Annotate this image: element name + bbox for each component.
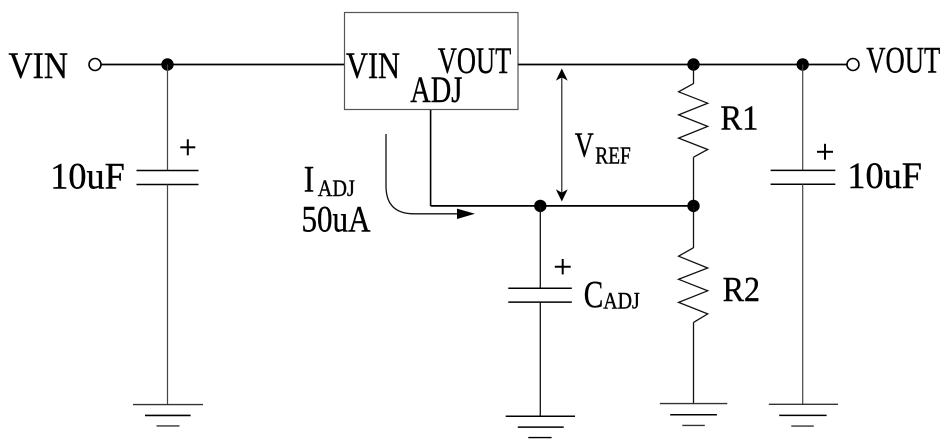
- capacitor CADJ plates: [508, 288, 572, 302]
- resistor R1 top lead: [693, 65, 695, 85]
- arrow IADJ (adjust current, curved): [386, 134, 475, 219]
- svg-text:R1: R1: [720, 98, 758, 137]
- label R1: [720, 98, 758, 137]
- terminal VIN (open circle): [89, 59, 101, 71]
- capacitor C2 polarity +: [817, 144, 833, 160]
- ground: C2: [769, 404, 838, 426]
- resistor R2 zigzag: [679, 248, 708, 323]
- terminal VOUT (open circle): [847, 59, 859, 71]
- node: ADJ net / R2 junction: [687, 200, 699, 212]
- svg-text:C: C: [584, 274, 604, 316]
- svg-text:50uA: 50uA: [302, 199, 371, 240]
- wire: ADJ net horizontal: [431, 205, 694, 207]
- svg-text:ADJ: ADJ: [410, 70, 462, 111]
- wire: ADJ pin down from regulator: [430, 110, 432, 206]
- capacitor C2 plates: [771, 170, 836, 184]
- svg-text:VIN: VIN: [346, 46, 400, 87]
- pin label VOUT (U1 output pin): [438, 41, 512, 82]
- regulator U1 body: [345, 13, 519, 110]
- capacitor C2 bottom lead: [802, 184, 804, 404]
- wire: regulator output to VOUT terminal: [518, 64, 847, 66]
- ground: C1: [133, 405, 203, 426]
- label CADJ: [584, 274, 640, 316]
- label R2: [723, 270, 761, 309]
- label 10uF (C2 value): [847, 156, 922, 197]
- capacitor C1 top lead: [167, 65, 169, 171]
- svg-text:10uF: 10uF: [50, 157, 125, 198]
- capacitor C1 polarity +: [180, 139, 195, 155]
- svg-text:VOUT: VOUT: [866, 41, 940, 82]
- svg-text:10uF: 10uF: [847, 156, 922, 197]
- svg-text:ADJ: ADJ: [603, 289, 640, 314]
- svg-text:ADJ: ADJ: [318, 176, 355, 201]
- svg-text:V: V: [575, 126, 594, 164]
- svg-text:I: I: [304, 159, 315, 200]
- arrow VREF (reference voltage indicator, double headed): [556, 69, 568, 202]
- ground: CADJ: [506, 416, 575, 437]
- pin label ADJ (U1 adjust pin): [410, 70, 462, 111]
- resistor R1 bottom lead: [693, 157, 695, 206]
- node: ADJ net / CADJ junction: [534, 200, 546, 212]
- node: VIN rail / C1 junction: [161, 58, 173, 70]
- label VIN (input net): [9, 46, 69, 87]
- resistor R1 zigzag: [679, 84, 708, 158]
- capacitor CADJ bottom lead: [539, 302, 541, 416]
- label VOUT (output net): [866, 41, 940, 82]
- svg-text:REF: REF: [595, 144, 631, 170]
- capacitor C2 top lead: [802, 65, 804, 171]
- svg-text:VIN: VIN: [9, 46, 69, 87]
- resistor R2 bottom lead: [693, 322, 695, 403]
- node: VOUT rail / R1 junction: [687, 58, 699, 70]
- label VREF: [575, 126, 631, 169]
- wire: VIN terminal to regulator input: [102, 64, 346, 66]
- pin label VIN (U1 input pin): [346, 46, 400, 87]
- label 50uA (adjust current value): [302, 199, 371, 240]
- capacitor C1 plates: [137, 171, 199, 185]
- label IADJ: [304, 159, 355, 201]
- capacitor CADJ top lead: [539, 206, 541, 288]
- capacitor C1 bottom lead: [167, 185, 169, 405]
- label 10uF (C1 value): [50, 157, 125, 198]
- resistor R2 top lead: [693, 206, 695, 248]
- capacitor CADJ polarity +: [555, 259, 571, 274]
- ground: R2: [660, 404, 728, 426]
- svg-text:R2: R2: [723, 270, 761, 309]
- node: VOUT rail / C2 junction: [797, 58, 809, 70]
